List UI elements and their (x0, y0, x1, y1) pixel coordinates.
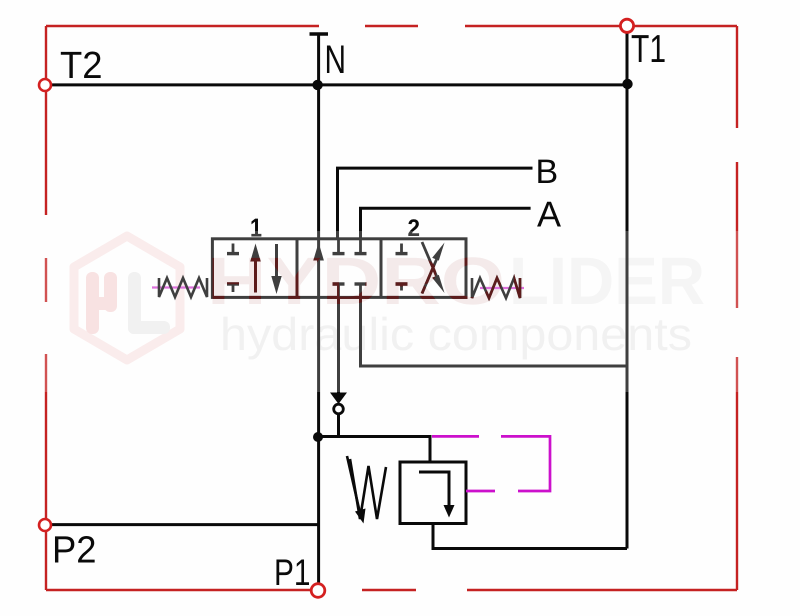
valve V1 centre box port A stub (355, 239, 367, 254)
wire N through P1 vertical (317, 239, 320, 584)
junction node at N tank (312, 80, 322, 90)
pilot line magenta dashed (432, 436, 550, 491)
svg-text:P1: P1 (274, 552, 311, 593)
valve V1 left box down arrow (271, 244, 281, 294)
port P1 circle (311, 584, 325, 598)
port P2 circle (39, 519, 51, 531)
valve V1 centre box port B stub (333, 239, 345, 254)
valve V1 centre box open centre arrow (313, 243, 324, 261)
red dashed enclosure border top (46, 25, 737, 27)
valve V1 left box up arrow (250, 244, 260, 293)
red dashed enclosure border bottom (46, 589, 737, 591)
wire N port vertical (317, 34, 320, 239)
label T2 (60, 45, 103, 87)
label P1 (274, 552, 311, 593)
watermark logo hexagon (74, 236, 180, 360)
wire relief valve outlet to tank (433, 524, 627, 549)
junction node at pump gallery (313, 432, 323, 442)
valve V1 left box blocked port top (227, 244, 239, 254)
relief valve RV1 adjustable spring (347, 456, 386, 524)
port T1 circle (620, 19, 633, 32)
label position 2 (408, 215, 421, 242)
valve V1 left spring (159, 278, 207, 297)
N port cap bar (310, 32, 329, 36)
wire B line (338, 168, 533, 239)
label P2 (52, 530, 97, 572)
valve V1 right box blocked port top (396, 244, 408, 254)
wire pump gallery to relief valve (318, 437, 430, 463)
svg-text:T1: T1 (631, 28, 666, 71)
relief valve RV1 flow arrow (419, 472, 455, 518)
wire P2 line (50, 523, 318, 526)
svg-text:N: N (325, 38, 347, 82)
red dashed enclosure border right (736, 26, 738, 590)
wire T1 vertical (626, 26, 629, 549)
check valve CV1 (330, 393, 347, 437)
red dashed enclosure border left (45, 26, 47, 590)
valve V1 centre box bottom port B stub (333, 284, 345, 297)
label B (536, 153, 559, 191)
wire A line (361, 208, 531, 239)
wire tank line T2-N-T1 (50, 83, 627, 86)
label position 1 (250, 213, 262, 243)
wire A work port to tank gallery (361, 297, 628, 366)
svg-text:A: A (537, 193, 561, 234)
valve V1 right box crossed arrows (422, 242, 445, 294)
valve V1 left box blocked port bottom (227, 284, 239, 292)
svg-text:P2: P2 (52, 530, 97, 572)
label T1 (631, 28, 666, 71)
valve V1 right spring (472, 278, 520, 298)
svg-text:B: B (536, 153, 559, 191)
relief valve RV1 body (400, 462, 466, 524)
label N (325, 38, 347, 82)
junction node at T1 tank (622, 79, 632, 89)
directional valve V1 envelope (212, 239, 466, 298)
valve V1 right spring pilot tint (480, 287, 524, 289)
valve V1 left spring pilot tint (152, 286, 200, 288)
watermark letter tint over lines (50, 26, 633, 584)
label A (537, 193, 561, 234)
wire check valve drop (337, 297, 340, 400)
svg-text:T2: T2 (60, 45, 103, 87)
port T2 circle (39, 79, 51, 91)
valve V1 centre box bottom port A stub (355, 284, 367, 297)
valve V1 right box blocked port bottom (396, 283, 408, 291)
watermark wash band (40, 231, 747, 392)
